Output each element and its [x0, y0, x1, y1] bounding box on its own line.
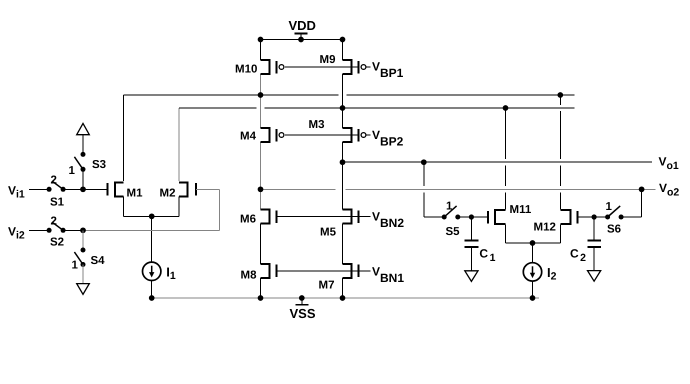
svg-text:M8: M8 [241, 270, 258, 282]
svg-text:M1: M1 [127, 188, 144, 200]
svg-text:1: 1 [69, 165, 76, 177]
svg-text:1: 1 [72, 260, 79, 272]
svg-text:M2: M2 [160, 188, 176, 200]
svg-text:1: 1 [446, 201, 453, 213]
svg-text:M6: M6 [240, 214, 256, 226]
svg-text:S3: S3 [92, 159, 106, 171]
svg-text:VDD: VDD [289, 18, 316, 33]
svg-text:M12: M12 [534, 222, 556, 234]
svg-text:1: 1 [606, 201, 613, 213]
svg-text:M5: M5 [320, 227, 337, 239]
svg-text:S4: S4 [91, 255, 106, 267]
svg-text:S1: S1 [50, 197, 65, 209]
svg-text:VSS: VSS [290, 306, 316, 321]
svg-text:S5: S5 [446, 226, 461, 238]
svg-text:S6: S6 [607, 224, 621, 236]
svg-text:2: 2 [51, 216, 57, 228]
svg-text:M11: M11 [510, 204, 532, 216]
svg-text:2: 2 [51, 175, 57, 187]
svg-text:S2: S2 [50, 237, 64, 249]
svg-text:M9: M9 [320, 54, 336, 66]
svg-text:M4: M4 [240, 131, 257, 143]
svg-text:M10: M10 [235, 64, 257, 76]
svg-text:M7: M7 [319, 280, 335, 292]
svg-text:M3: M3 [309, 119, 325, 131]
